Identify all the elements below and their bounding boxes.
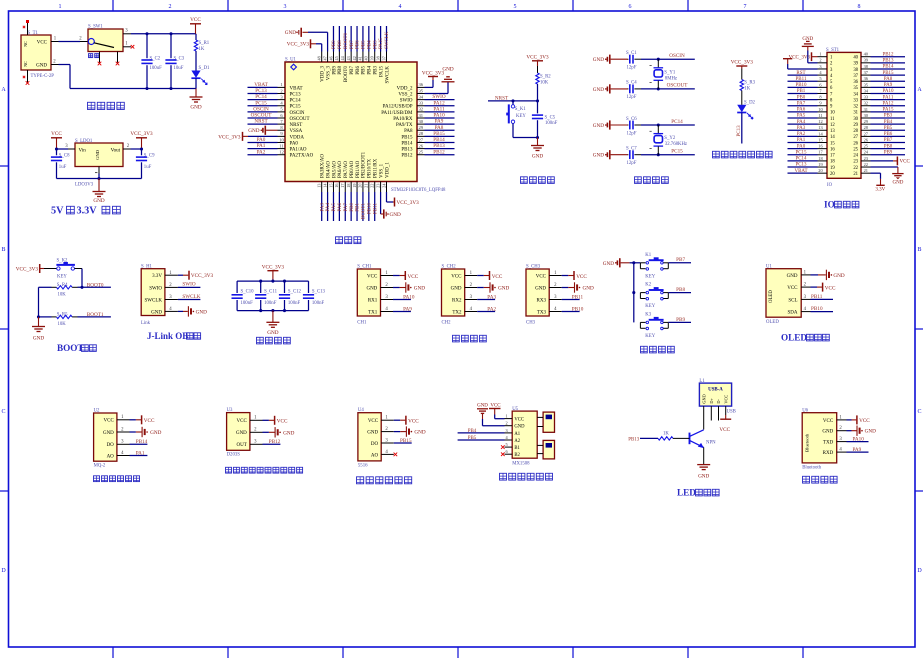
svg-text:1uF: 1uF (59, 165, 67, 170)
wire net PA6 (338, 192, 340, 221)
power VCC U6 (847, 419, 852, 421)
wire net PA12 (header R32) (871, 105, 906, 107)
ground GND power circuit (195, 89, 197, 98)
svg-text:100nF: 100nF (264, 301, 277, 306)
svg-text:GND: GND (442, 66, 453, 72)
wire LDO bottom rail (57, 178, 142, 180)
svg-text:PA10: PA10 (883, 89, 894, 94)
svg-text:PB9: PB9 (676, 317, 685, 323)
svg-text:PA4/AO: PA4/AO (326, 161, 331, 178)
wire net SWIO (178, 286, 201, 288)
svg-text:PB7: PB7 (350, 66, 355, 75)
svg-text:22: 22 (864, 162, 868, 167)
svg-text:AO: AO (107, 454, 115, 459)
svg-text:S_CH3: S_CH3 (526, 265, 541, 270)
svg-text:3: 3 (284, 4, 287, 10)
ground GND filter (272, 311, 274, 323)
wire net PB10 (562, 311, 580, 313)
svg-text:PA1: PA1 (257, 143, 266, 149)
svg-text:PB15: PB15 (882, 71, 894, 76)
svg-text:OSCOUT: OSCOUT (290, 117, 310, 122)
svg-text:26: 26 (419, 143, 424, 148)
svg-text:KEY: KEY (645, 304, 655, 309)
svg-text:48: 48 (317, 56, 322, 60)
svg-text:VCC: VCC (492, 274, 503, 280)
wire VSS_2 to GND (425, 93, 449, 95)
svg-text:26: 26 (853, 141, 858, 146)
wire net PB4 (368, 26, 370, 52)
svg-text:GND: GND (236, 431, 247, 436)
svg-text:S_C12: S_C12 (288, 289, 302, 294)
crystal Y1 8MHz (657, 59, 659, 67)
capacitor C2 (146, 34, 148, 58)
svg-text:RST: RST (796, 71, 805, 76)
wire net PB13 (425, 148, 455, 150)
wire net PB4 (458, 432, 505, 434)
svg-text:PC15: PC15 (290, 105, 302, 110)
svg-text:20: 20 (830, 172, 835, 177)
svg-text:S_C7: S_C7 (626, 147, 637, 152)
svg-text:VCC: VCC (823, 419, 834, 424)
svg-text:21: 21 (364, 184, 369, 188)
svg-text:S_C3: S_C3 (174, 56, 185, 61)
svg-text:3.3V: 3.3V (875, 187, 885, 192)
wire net PA3 (header L13) (788, 129, 818, 131)
wire net PC13 (vertical) (741, 113, 743, 144)
ground GND at VSS_1 (380, 192, 382, 214)
header S_CH2 body (442, 269, 465, 316)
svg-text:GND: GND (33, 336, 44, 342)
bluetooth module U6 body (802, 413, 837, 463)
svg-text:PA0: PA0 (290, 141, 299, 146)
svg-text:8: 8 (858, 4, 861, 10)
svg-text:S_ST1: S_ST1 (826, 48, 840, 53)
svg-text:Bluetooth: Bluetooth (802, 466, 822, 471)
svg-text:PB10: PB10 (811, 306, 823, 312)
svg-text:PA0: PA0 (257, 137, 266, 143)
ground GND at VSS_3 (327, 32, 329, 51)
svg-text:SWCLK: SWCLK (182, 294, 200, 300)
svg-text:34: 34 (419, 94, 424, 99)
wire net PB15 (header R37) (871, 74, 906, 76)
svg-text:PA9: PA9 (853, 447, 862, 453)
svg-text:TX3: TX3 (537, 310, 547, 315)
svg-text:KEY: KEY (516, 114, 526, 119)
caption power circuit (88, 102, 95, 109)
svg-text:S_Y2: S_Y2 (664, 136, 676, 141)
pushbutton K2 (KEY) (639, 293, 641, 299)
pin stub T1 top (27, 22, 29, 35)
svg-text:32: 32 (853, 105, 858, 110)
svg-text:KEY: KEY (645, 274, 655, 279)
svg-text:2: 2 (506, 421, 508, 426)
svg-text:40: 40 (853, 56, 858, 61)
svg-text:VSSA: VSSA (290, 129, 303, 134)
wire net PA3 (477, 299, 495, 301)
svg-text:BOOT1: BOOT1 (362, 203, 367, 220)
svg-text:S_R5: S_R5 (57, 313, 68, 318)
module U3 (D203S) body (227, 413, 250, 451)
svg-text:GND: GND (892, 181, 903, 186)
wire net PA15 (header R31) (871, 111, 906, 113)
svg-text:PB13: PB13 (628, 437, 640, 442)
svg-text:GND: GND (583, 286, 594, 292)
svg-text:32.768KHz: 32.768KHz (665, 142, 687, 147)
ground GND OLED pin1 (811, 274, 819, 276)
wire net PC13 (header L19) (788, 166, 818, 168)
svg-text:D: D (1, 568, 6, 574)
svg-text:PB5: PB5 (362, 40, 367, 49)
svg-text:PC14: PC14 (795, 157, 807, 162)
svg-text:PA10: PA10 (433, 113, 445, 119)
svg-text:GND: GND (151, 310, 162, 315)
svg-text:100nF: 100nF (288, 301, 301, 306)
svg-text:PC13: PC13 (795, 163, 807, 168)
wire net PA4 (header L12) (788, 123, 818, 125)
caption main chip (336, 237, 343, 244)
svg-text:VDD_1: VDD_1 (385, 162, 390, 178)
wire K2 to BOOT0 (75, 268, 83, 270)
wire net PB15 (425, 135, 455, 137)
power VCC (U3 pin1) (263, 419, 269, 421)
wire net PA0 (header L16) (788, 148, 818, 150)
wire net PC14 (header L18) (788, 160, 818, 162)
svg-text:12: 12 (279, 150, 284, 155)
wire net PC15 (header L17) (788, 154, 818, 156)
svg-text:VCC: VCC (536, 274, 547, 279)
capacitor S_C11 100nF (260, 281, 262, 293)
ground GND (LED lamp) (703, 447, 705, 464)
svg-text:VCC: VCC (37, 40, 48, 45)
svg-text:VCC: VCC (723, 395, 728, 404)
svg-text:PA2TX/AO: PA2TX/AO (290, 154, 314, 159)
power VCC (U2 pin1) (130, 419, 136, 421)
svg-text:1: 1 (506, 414, 508, 419)
svg-text:MX1508: MX1508 (512, 461, 530, 466)
svg-text:VCC: VCC (408, 274, 419, 280)
svg-text:PA10: PA10 (403, 294, 415, 300)
pin 3 SW1 (123, 33, 131, 35)
motor driver U5 MX1508 body (512, 411, 537, 458)
svg-text:PC15: PC15 (795, 150, 807, 155)
svg-text:16: 16 (830, 147, 835, 152)
svg-text:SWIO: SWIO (400, 99, 413, 104)
svg-text:PB14: PB14 (882, 65, 894, 70)
svg-text:PB8: PB8 (338, 40, 343, 49)
svg-text:TXD: TXD (823, 441, 834, 446)
wire collector (703, 406, 705, 429)
wire net PB14 (425, 141, 455, 143)
svg-text:PC14: PC14 (290, 99, 302, 104)
wire net PA6 (header L10) (788, 111, 818, 113)
svg-text:K2: K2 (645, 283, 651, 288)
svg-text:S_CH1: S_CH1 (357, 265, 372, 270)
svg-text:PA10: PA10 (853, 436, 865, 442)
svg-text:PA12: PA12 (433, 100, 445, 106)
wire net BOOT0 (344, 26, 346, 52)
svg-text:S_Y1: S_Y1 (664, 70, 676, 75)
wire net PB5 (header R28) (871, 129, 906, 131)
wire net PA5 (header L11) (788, 117, 818, 119)
wire net PB0 (header L8) (788, 99, 818, 101)
svg-text:GND: GND (593, 123, 604, 129)
svg-text:25: 25 (853, 147, 858, 152)
svg-text:PB13: PB13 (401, 148, 413, 153)
svg-text:5: 5 (514, 4, 517, 10)
svg-text:PC14: PC14 (255, 94, 267, 100)
svg-text:PA10/RX: PA10/RX (393, 117, 413, 122)
svg-text:STM32F103C8T6_LQFP48: STM32F103C8T6_LQFP48 (391, 188, 446, 193)
svg-text:PA15: PA15 (379, 38, 384, 49)
wire net PB5 (362, 26, 364, 52)
svg-text:PA12: PA12 (883, 101, 894, 106)
wire net PA5 (332, 192, 334, 221)
svg-text:PB8: PB8 (884, 144, 893, 149)
caption serial circuit (453, 335, 460, 342)
svg-text:VBAT: VBAT (290, 86, 303, 91)
svg-text:21: 21 (864, 168, 868, 173)
wire net NRST (248, 123, 278, 125)
power 3.3V header pin21 (871, 172, 881, 174)
wire net PB10 (header L6) (788, 86, 818, 88)
svg-text:PA4: PA4 (797, 120, 806, 125)
svg-text:PB9: PB9 (332, 66, 337, 75)
wire net PA7 (344, 192, 346, 221)
svg-text:GND: GND (103, 431, 114, 436)
capacitor C5 (537, 101, 539, 114)
power VCC header pin23 (871, 160, 894, 162)
svg-text:GND: GND (36, 63, 47, 68)
svg-text:BOOT: BOOT (57, 343, 84, 353)
svg-text:1K: 1K (744, 86, 750, 91)
switch S_SW1 (88, 29, 123, 52)
no-connect (U4 pin4) (394, 453, 398, 457)
svg-text:D+: D+ (709, 397, 714, 403)
svg-text:36: 36 (853, 80, 858, 85)
capacitor S_C13 100nF (308, 281, 310, 293)
svg-text:100nF: 100nF (545, 121, 558, 126)
svg-text:PB1: PB1 (356, 203, 361, 212)
svg-text:PB3: PB3 (373, 40, 378, 49)
LED D1 (191, 71, 200, 78)
svg-text:PA4: PA4 (326, 203, 331, 212)
svg-text:BOOT0: BOOT0 (344, 32, 349, 49)
wire net OSCOUT (248, 117, 278, 119)
power VCC_3V3 J-Link pin1 (178, 274, 183, 276)
header S_CH3 body (526, 269, 549, 316)
svg-text:U2: U2 (94, 409, 100, 414)
svg-text:OLED: OLED (769, 290, 774, 303)
svg-text:S_R1: S_R1 (199, 41, 210, 46)
svg-text:24: 24 (853, 154, 858, 159)
wire net PB4 (header R29) (871, 123, 906, 125)
svg-text:PB14: PB14 (136, 439, 148, 445)
svg-text:U1: U1 (766, 264, 772, 269)
svg-text:S_K2: S_K2 (57, 258, 69, 263)
svg-text:C: C (917, 409, 921, 415)
svg-text:VCC: VCC (51, 131, 62, 137)
pin 3 LDO (68, 148, 75, 150)
svg-text:SWIO: SWIO (432, 94, 446, 100)
svg-text:15: 15 (328, 184, 333, 188)
svg-text:11: 11 (830, 117, 835, 122)
svg-text:15: 15 (830, 141, 835, 146)
svg-text:NPN: NPN (706, 441, 716, 446)
svg-text:PB12: PB12 (269, 439, 281, 445)
svg-text:1: 1 (819, 52, 821, 57)
svg-text:S_C6: S_C6 (626, 117, 637, 122)
svg-text:VDDA: VDDA (290, 135, 305, 140)
capacitor S_C6 12pF (627, 124, 630, 126)
svg-text:D: D (917, 568, 922, 574)
svg-text:PB11: PB11 (572, 294, 584, 300)
svg-text:A: A (1, 87, 6, 93)
svg-text:PB2/BOOT1: PB2/BOOT1 (362, 151, 367, 178)
svg-text:KEY: KEY (645, 334, 655, 339)
junction dots filter (259, 280, 262, 283)
svg-text:PB14: PB14 (433, 137, 445, 143)
svg-text:KEY: KEY (57, 274, 67, 279)
svg-text:A2: A2 (514, 439, 520, 444)
wire net PA1 (248, 148, 278, 150)
svg-text:D203S: D203S (227, 453, 241, 458)
pin 2 LDO (123, 148, 131, 150)
svg-text:2: 2 (169, 4, 172, 10)
svg-text:PA9: PA9 (884, 83, 893, 88)
svg-text:CH2: CH2 (442, 320, 452, 325)
wire filter bottom rail (237, 310, 308, 312)
wire net OSCIN (248, 111, 278, 113)
power VCC (USB) (725, 406, 727, 415)
svg-text:BOOT0: BOOT0 (87, 283, 104, 289)
svg-text:PB12: PB12 (401, 154, 413, 159)
svg-text:A: A (917, 87, 922, 93)
svg-text:22: 22 (370, 184, 375, 188)
svg-text:13: 13 (317, 184, 322, 188)
ground GND header pin22 (871, 166, 898, 168)
caption bluetooth module (803, 476, 810, 483)
svg-text:J-Link OB: J-Link OB (147, 331, 188, 341)
svg-text:17: 17 (340, 184, 345, 188)
svg-text:VBAT: VBAT (794, 169, 807, 174)
svg-text:S_C2: S_C2 (150, 56, 161, 61)
wire net PA9 (U6) (847, 451, 869, 453)
svg-text:S_D1: S_D1 (199, 66, 211, 71)
connector T1 (TYPE-C-2P) (21, 35, 51, 70)
svg-text:OSCOUT: OSCOUT (667, 83, 689, 89)
svg-text:19: 19 (352, 184, 357, 188)
caption key circuit (641, 346, 648, 353)
svg-text:AO: AO (371, 453, 379, 458)
svg-text:PB0/AO: PB0/AO (350, 160, 355, 178)
svg-text:GND: GND (833, 273, 844, 279)
caption filter circuit (257, 337, 264, 344)
svg-text:OUT: OUT (237, 443, 247, 448)
svg-text:PB9: PB9 (332, 40, 337, 49)
svg-text:GND: GND (414, 286, 425, 292)
svg-text:S_C10: S_C10 (241, 289, 255, 294)
svg-text:PB7: PB7 (676, 257, 685, 263)
caption human infrared sensor module (226, 467, 232, 473)
wire net VBAT (248, 86, 278, 88)
svg-text:4: 4 (399, 4, 402, 10)
svg-text:B: B (1, 247, 5, 253)
pin 2 T1 GND (51, 64, 59, 66)
svg-text:PB11: PB11 (811, 294, 823, 300)
svg-text:22: 22 (853, 166, 858, 171)
svg-text:VCC_3V3: VCC_3V3 (218, 134, 241, 140)
ground GND BOOT (38, 317, 40, 327)
svg-text:VSS_1: VSS_1 (379, 163, 384, 178)
wire net PB1 (356, 192, 358, 221)
power VCC_3V3 at VDD_1 (385, 192, 387, 202)
wire net PB12 (header R40) (871, 56, 906, 58)
svg-text:23: 23 (853, 160, 858, 165)
wire net PA8 (header R36) (871, 80, 906, 82)
svg-text:GND: GND (865, 429, 876, 435)
svg-text:PA9: PA9 (435, 119, 444, 125)
svg-text:PB15: PB15 (400, 438, 412, 444)
power VCC_3V3 at VDD_3 (321, 44, 323, 52)
svg-text:18: 18 (830, 160, 835, 165)
switch bottom stubs (99, 52, 101, 63)
wire net PB11 (562, 299, 580, 301)
wire net PA8 (425, 129, 455, 131)
svg-text:PB4: PB4 (367, 40, 372, 49)
wire net PB5 (458, 439, 505, 441)
wire net PA7 (header L9) (788, 105, 818, 107)
svg-text:PA3: PA3 (487, 294, 496, 300)
svg-text:PA2: PA2 (797, 132, 806, 137)
svg-text:S_SW1: S_SW1 (88, 25, 103, 30)
svg-text:S_C9: S_C9 (144, 153, 155, 158)
crystal Y2 32.768KHz (657, 125, 659, 133)
power VCC OLED pin2 (811, 286, 818, 288)
svg-text:12pF: 12pF (627, 161, 637, 166)
svg-text:GND: GND (477, 403, 488, 408)
regulator S_LDO1 (75, 143, 123, 167)
svg-text:31: 31 (864, 107, 868, 112)
svg-text:25: 25 (419, 150, 424, 155)
svg-text:PB9: PB9 (884, 150, 893, 155)
junction (145, 87, 148, 90)
svg-text:PC13: PC13 (255, 88, 267, 94)
ground GND LDO (98, 179, 100, 192)
svg-text:PA12/USB/DP: PA12/USB/DP (383, 105, 413, 110)
svg-text:12pF: 12pF (627, 131, 637, 136)
wire net PA1 (header L15) (788, 142, 818, 144)
wire net PA1 (130, 455, 148, 457)
svg-text:10K: 10K (540, 80, 549, 85)
caption crystal circuit (635, 177, 642, 184)
svg-text:33: 33 (419, 101, 424, 106)
svg-text:VCC: VCC (859, 418, 870, 424)
svg-text:PB0: PB0 (350, 203, 355, 212)
svg-text:PB8: PB8 (338, 66, 343, 75)
svg-text:SCL: SCL (788, 298, 797, 303)
svg-text:PB0: PB0 (797, 95, 806, 100)
svg-text:PA11: PA11 (433, 106, 445, 112)
svg-text:PB11/RX: PB11/RX (374, 158, 379, 178)
svg-text:PA11/USB/DM: PA11/USB/DM (381, 111, 413, 116)
caption program running indicator (713, 151, 720, 158)
svg-text:Bluetooth: Bluetooth (804, 433, 809, 452)
svg-text:S_C4: S_C4 (626, 81, 637, 86)
svg-text:6: 6 (629, 4, 632, 10)
capacitor S_C7 12pF (627, 154, 630, 156)
svg-text:PA3: PA3 (797, 126, 806, 131)
svg-text:GND: GND (802, 37, 813, 42)
